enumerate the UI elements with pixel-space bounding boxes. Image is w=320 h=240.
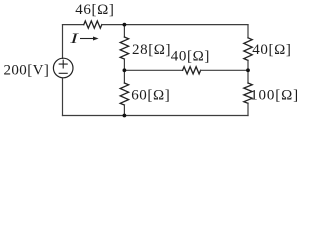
wire right vertical middle lead [247, 60, 249, 83]
wire left vertical upper (source top lead) [62, 25, 64, 59]
wire middle branch upper lead [123, 25, 125, 37]
wire left vertical lower (source bottom lead) [62, 78, 64, 116]
resistor 46 Ohm (top) [84, 21, 102, 28]
svg-text:46[Ω]: 46[Ω] [75, 2, 114, 18]
voltage source 200V (circle) [53, 58, 73, 78]
resistor 40 Ohm (right upper) [244, 38, 252, 61]
wire middle branch center lead [123, 59, 125, 83]
svg-text:200[V]: 200[V] [4, 63, 50, 79]
wire bottom-right segment [124, 115, 248, 117]
svg-text:40[Ω]: 40[Ω] [252, 42, 291, 58]
wire top-left segment [63, 24, 84, 26]
resistor 60 Ohm (middle branch lower) [120, 83, 128, 105]
resistor 100 Ohm (right lower) [244, 83, 252, 103]
wire middle branch bottom lead [123, 105, 125, 116]
node junction dot (middle branch / middle wire) [123, 68, 127, 72]
svg-text:100[Ω]: 100[Ω] [250, 87, 299, 103]
voltage source minus sign [59, 72, 67, 74]
svg-text:28[Ω]: 28[Ω] [132, 42, 171, 58]
svg-text:I: I [69, 31, 80, 47]
wire right vertical top lead [247, 25, 249, 38]
svg-text:60[Ω]: 60[Ω] [131, 87, 170, 103]
wire top-right segment [124, 24, 248, 26]
node junction dot (bottom of middle branch) [123, 114, 127, 118]
wire middle horizontal right segment [201, 69, 248, 71]
resistor 28 Ohm (middle branch upper) [120, 37, 128, 59]
node junction dot (top of middle branch) [123, 23, 127, 27]
svg-text:40[Ω]: 40[Ω] [171, 49, 210, 65]
voltage source plus sign [59, 60, 67, 68]
resistor 40 Ohm (middle horizontal) [183, 67, 201, 74]
wire bottom-left segment [63, 115, 125, 117]
node junction dot (right vertical / middle wire) [246, 68, 250, 72]
wire right vertical bottom lead [247, 103, 249, 115]
wire middle horizontal left segment [124, 69, 182, 71]
current arrow I [80, 37, 99, 41]
wire top-middle segment [102, 24, 125, 26]
